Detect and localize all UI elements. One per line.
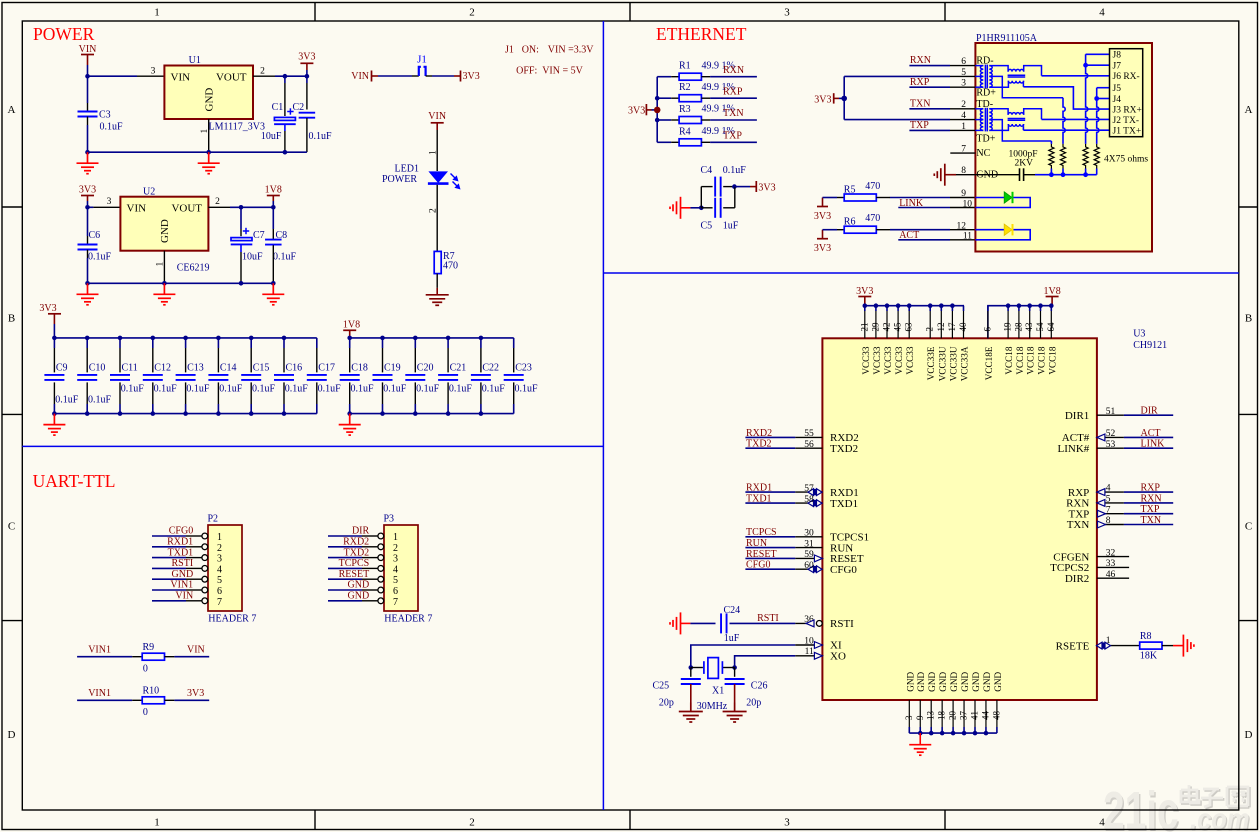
pin 40 of U3 (VCC33A) xyxy=(963,305,966,307)
svg-text:A: A xyxy=(1245,104,1253,116)
wire to P3 pin 6 (GND) xyxy=(328,589,362,591)
wire C6 to ground rail xyxy=(87,250,89,258)
wire 1V8 node down to C7 xyxy=(240,207,242,229)
svg-text:4: 4 xyxy=(217,564,222,575)
svg-text:31: 31 xyxy=(804,539,814,549)
svg-text:C15: C15 xyxy=(253,363,270,374)
svg-text:TXD1: TXD1 xyxy=(830,498,858,510)
junction xyxy=(940,731,945,736)
1V8 top rail wire xyxy=(350,337,514,339)
wire RXD2 to U3 pin 55 xyxy=(745,436,795,438)
wire VIN1 to R10 xyxy=(77,699,132,701)
3V3 bus wire to center taps xyxy=(843,76,845,119)
svg-text:3V3: 3V3 xyxy=(758,182,775,193)
wire XO to crystal xyxy=(735,656,796,668)
pin 7 of P3 xyxy=(362,600,378,602)
junction xyxy=(85,150,90,155)
resistor R10 xyxy=(132,699,142,701)
wire U3 pin 51 to net DIR xyxy=(1124,414,1173,416)
ground bottom rail wire xyxy=(54,413,316,415)
junction xyxy=(282,411,287,416)
pin 4 of U3 xyxy=(1097,491,1124,493)
IO arrow xyxy=(808,500,822,507)
junction xyxy=(151,336,156,341)
svg-text:46: 46 xyxy=(1106,570,1116,580)
wire to P2 pin 2 (RXD1) xyxy=(152,546,186,548)
wire VIN to J1 xyxy=(372,75,379,77)
wire to P2 pin 4 (RSTI) xyxy=(152,567,186,569)
svg-text:R1: R1 xyxy=(679,61,691,72)
svg-text:C17: C17 xyxy=(318,363,335,374)
wire TXD2 to U3 pin 56 xyxy=(745,447,795,449)
svg-text:1: 1 xyxy=(217,532,222,543)
svg-text:C6: C6 xyxy=(89,230,101,241)
svg-text:C10: C10 xyxy=(89,363,106,374)
pin 29 of U3 (VCC33) xyxy=(875,306,877,311)
capacitor C13 xyxy=(185,338,187,348)
svg-text:J5: J5 xyxy=(1113,84,1122,94)
junction xyxy=(1027,303,1032,308)
svg-text:11: 11 xyxy=(805,647,814,657)
ground xyxy=(670,612,681,634)
ground xyxy=(723,703,747,723)
svg-text:TXN: TXN xyxy=(723,108,744,119)
resistor 75ohm #3 xyxy=(1083,144,1088,169)
svg-text:41: 41 xyxy=(970,711,980,720)
svg-text:3V3: 3V3 xyxy=(463,71,480,82)
svg-text:J1: J1 xyxy=(417,54,427,66)
svg-text:0: 0 xyxy=(143,664,148,675)
regulator U2 body xyxy=(120,197,208,251)
svg-text:GND: GND xyxy=(993,672,1003,692)
pin 2 of U2 xyxy=(208,206,230,208)
wire RD centre tap column xyxy=(1063,98,1065,144)
svg-text:0.1uF: 0.1uF xyxy=(100,122,124,133)
junction xyxy=(282,336,287,341)
wire VIN to LED1 xyxy=(436,130,438,171)
GND bus wire under U3 xyxy=(909,732,997,734)
svg-text:29: 29 xyxy=(870,322,880,332)
svg-text:RSTI: RSTI xyxy=(830,618,854,630)
ground xyxy=(43,414,65,436)
svg-text:0.1uF: 0.1uF xyxy=(88,252,112,263)
svg-text:55: 55 xyxy=(804,429,814,439)
svg-text:VIN: VIN xyxy=(79,44,97,55)
svg-text:R2: R2 xyxy=(679,82,691,93)
wire U3 pin 7 to net TXP xyxy=(1124,513,1173,515)
svg-text:3: 3 xyxy=(784,817,790,829)
resistor R5 xyxy=(837,197,844,199)
svg-text:21: 21 xyxy=(859,323,869,332)
junction xyxy=(85,205,90,210)
wire 3V3 down to C2 xyxy=(306,76,308,83)
svg-text:40: 40 xyxy=(958,322,968,332)
junction xyxy=(699,206,704,211)
capacitor C10 xyxy=(86,338,88,348)
wire 3V3 to R5 xyxy=(823,197,838,199)
svg-text:C1: C1 xyxy=(272,102,284,113)
ground xyxy=(670,197,681,219)
regulator U1 body xyxy=(164,66,253,120)
junction xyxy=(118,411,123,416)
junction xyxy=(271,205,276,210)
wire bus to R1 xyxy=(657,76,671,78)
wire to 3V3 port xyxy=(734,186,750,188)
svg-text:3V3: 3V3 xyxy=(187,688,204,699)
IO arrow xyxy=(814,642,822,649)
svg-text:GND: GND xyxy=(982,672,992,692)
wire R5 to module pin 9 xyxy=(890,197,950,199)
LED green LINK inside module xyxy=(975,197,1004,199)
svg-text:0.1uF: 0.1uF xyxy=(219,384,243,395)
svg-text:XO: XO xyxy=(830,651,846,663)
junction xyxy=(951,731,956,736)
svg-text:11: 11 xyxy=(963,232,972,242)
svg-text:RESET: RESET xyxy=(746,549,777,560)
svg-text:2KV: 2KV xyxy=(1015,159,1034,169)
svg-text:VIN =3.3V: VIN =3.3V xyxy=(548,44,594,55)
ground xyxy=(909,745,931,756)
pin 6 of P2 xyxy=(186,589,202,591)
junction xyxy=(271,281,276,286)
wire to P2 pin 1 (CFG0) xyxy=(152,535,186,537)
pin 10 of U3 (XI) xyxy=(795,644,822,646)
junction xyxy=(249,411,254,416)
junction xyxy=(85,336,90,341)
svg-text:J1 TX+: J1 TX+ xyxy=(1113,127,1142,137)
svg-text:C8: C8 xyxy=(276,230,288,241)
svg-text:2: 2 xyxy=(469,7,475,19)
svg-text:VIN = 5V: VIN = 5V xyxy=(542,66,583,77)
capacitor C25 xyxy=(690,668,692,677)
svg-text:DIR2: DIR2 xyxy=(1065,573,1089,585)
junction xyxy=(732,665,737,670)
svg-text:GND: GND xyxy=(348,580,370,591)
svg-text:C18: C18 xyxy=(351,363,368,374)
wire pin2 of U2 to 1V8 node xyxy=(230,206,273,208)
resistor R3 xyxy=(671,119,679,121)
IO arrow xyxy=(1098,510,1106,517)
svg-text:12: 12 xyxy=(936,323,946,332)
svg-text:TD+: TD+ xyxy=(976,133,995,144)
pin 5 of P2 xyxy=(186,578,202,580)
pin 36 of U3 xyxy=(795,622,814,624)
svg-text:33: 33 xyxy=(1106,559,1116,569)
svg-text:TXD1: TXD1 xyxy=(168,547,194,558)
svg-text:RXP: RXP xyxy=(723,86,743,97)
svg-text:C21: C21 xyxy=(450,363,467,374)
wire C26 to ground xyxy=(734,684,736,703)
wire U3 pin 53 to net LINK xyxy=(1124,447,1173,449)
svg-text:LINK#: LINK# xyxy=(1058,443,1090,455)
junction xyxy=(1061,172,1066,177)
svg-text:TXN: TXN xyxy=(1141,515,1162,526)
svg-text:R4: R4 xyxy=(679,126,691,137)
connector P2 body xyxy=(208,525,242,611)
svg-text:1uF: 1uF xyxy=(723,221,739,232)
svg-text:TCPCS: TCPCS xyxy=(746,527,777,538)
junction xyxy=(347,336,352,341)
svg-text:D: D xyxy=(1245,729,1253,741)
pin 60 of U3 xyxy=(795,568,822,570)
junction xyxy=(874,303,879,308)
svg-text:45: 45 xyxy=(893,322,903,332)
svg-text:RXN: RXN xyxy=(723,65,744,76)
wire GND bus to ground xyxy=(919,733,921,745)
svg-text:TXD2: TXD2 xyxy=(344,547,370,558)
svg-text:VIN: VIN xyxy=(428,111,446,122)
IO arrow xyxy=(1097,489,1105,496)
capacitor C7 (polarized) xyxy=(231,238,253,245)
svg-text:58: 58 xyxy=(804,495,814,505)
RJ45 connector block xyxy=(1110,49,1143,137)
svg-text:1V8: 1V8 xyxy=(343,320,360,331)
connector P3 body xyxy=(384,525,418,611)
svg-text:0.1uF: 0.1uF xyxy=(285,384,309,395)
svg-text:9: 9 xyxy=(961,189,966,199)
svg-text:VIN1: VIN1 xyxy=(88,688,111,699)
junction xyxy=(1049,172,1054,177)
svg-text:12: 12 xyxy=(957,221,967,231)
svg-text:VCC33: VCC33 xyxy=(861,346,871,374)
watermark CJK glyphs xyxy=(1181,785,1249,808)
pin 20 of U3 (GND) xyxy=(952,700,954,727)
svg-text:J8: J8 xyxy=(1113,51,1122,61)
svg-text:C: C xyxy=(8,521,15,533)
wire to P2 pin 7 (VIN) xyxy=(152,600,186,602)
pin 51 of U3 xyxy=(1097,414,1124,416)
transformer RD channel xyxy=(975,65,983,67)
svg-text:6: 6 xyxy=(982,327,992,332)
svg-text:VCC33E: VCC33E xyxy=(926,346,936,380)
svg-text:RXP: RXP xyxy=(910,77,930,88)
wire U3 pin 5 to net RXN xyxy=(1124,502,1173,504)
wire U3 pin 52 to net ACT xyxy=(1124,436,1173,438)
wire C5 up to 3V3 node xyxy=(723,207,735,209)
pin 3 of P2 xyxy=(186,557,202,559)
svg-text:GND: GND xyxy=(971,672,981,692)
svg-text:VCC33: VCC33 xyxy=(905,346,915,374)
svg-text:5: 5 xyxy=(217,575,222,586)
junction xyxy=(863,303,868,308)
wire J5/J4 column xyxy=(1097,87,1110,89)
svg-text:2: 2 xyxy=(217,543,222,554)
pin 12 of U3 (VCC33U) xyxy=(940,306,942,311)
svg-text:RXD2: RXD2 xyxy=(343,537,369,548)
svg-text:0.1uF: 0.1uF xyxy=(273,252,297,263)
3V3 bus wire for termination resistors xyxy=(656,77,658,143)
pin 6 of U3 (VCC18E) xyxy=(987,306,989,311)
wire ground to pin 8 xyxy=(945,174,956,176)
svg-text:VIN: VIN xyxy=(351,71,369,82)
junction xyxy=(1094,96,1099,101)
capacitor C2 xyxy=(299,113,316,118)
svg-text:3: 3 xyxy=(961,79,966,89)
svg-text:B: B xyxy=(8,313,15,325)
wire U3 pin 8 to net TXN xyxy=(1124,524,1173,526)
svg-text:30: 30 xyxy=(804,529,814,539)
svg-text:RXP: RXP xyxy=(1141,483,1161,494)
svg-text:GND: GND xyxy=(348,591,370,602)
wire 3V3 to U2 pin 3 xyxy=(88,206,94,208)
pin 57 of U3 xyxy=(795,491,822,493)
svg-text:VIN1: VIN1 xyxy=(170,580,193,591)
resistor 75ohm #2 xyxy=(1060,144,1065,169)
wire R1 to net RXN xyxy=(710,76,757,78)
junction xyxy=(162,281,167,286)
svg-text:470: 470 xyxy=(443,261,458,272)
junction xyxy=(896,303,901,308)
wire to P2 pin 5 (GND) xyxy=(152,578,186,580)
power port 3V3 at R6 xyxy=(822,230,824,239)
svg-text:1: 1 xyxy=(393,532,398,543)
svg-text:J7: J7 xyxy=(1113,62,1122,72)
svg-text:51: 51 xyxy=(1106,407,1116,417)
svg-text:0.1uF: 0.1uF xyxy=(416,384,440,395)
svg-text:54: 54 xyxy=(1035,322,1045,332)
wire RD bottom to J3 RX+ xyxy=(1023,87,1109,109)
svg-text:4: 4 xyxy=(961,111,966,121)
svg-text:TXN: TXN xyxy=(1067,519,1090,531)
junction xyxy=(918,731,923,736)
svg-text:0.1uF: 0.1uF xyxy=(318,384,342,395)
pin 11 of U3 (XO) xyxy=(795,655,822,657)
svg-text:R8: R8 xyxy=(1140,631,1152,642)
capacitor C16 xyxy=(283,338,285,348)
svg-text:NC: NC xyxy=(976,148,990,159)
svg-text:RXN: RXN xyxy=(910,55,931,66)
internal GND wire with 1000pF cap xyxy=(975,174,1019,176)
IO arrow xyxy=(1098,521,1106,528)
svg-text:0.1uF: 0.1uF xyxy=(154,384,178,395)
svg-text:J1: J1 xyxy=(505,44,514,55)
svg-text:3V3: 3V3 xyxy=(39,303,56,314)
junction xyxy=(183,411,188,416)
ground rail wire under U2 xyxy=(88,282,274,284)
junction xyxy=(85,281,90,286)
pin 46 of U3 xyxy=(1097,577,1129,579)
svg-text:VCC33U: VCC33U xyxy=(948,346,958,381)
svg-text:59: 59 xyxy=(804,550,814,560)
pin 42 of U3 (VCC33) xyxy=(886,306,888,311)
svg-text:3V3: 3V3 xyxy=(814,94,831,105)
ground xyxy=(426,295,449,306)
svg-text:4: 4 xyxy=(393,564,398,575)
wire VIN to U1 pin 3 xyxy=(88,75,138,77)
crystal X1 xyxy=(691,667,703,669)
svg-text:8: 8 xyxy=(1106,516,1111,526)
svg-text:UART-TTL: UART-TTL xyxy=(33,471,116,491)
svg-text:0.1uF: 0.1uF xyxy=(383,384,407,395)
svg-text:21ic: 21ic xyxy=(1103,780,1179,832)
svg-text:TXD1: TXD1 xyxy=(746,494,772,505)
pin 2 of LED1 xyxy=(436,185,438,252)
pin 44 of U3 (GND) xyxy=(985,700,987,727)
wire to P3 pin 1 (DIR) xyxy=(328,535,362,537)
wire TXN to module pin 2 xyxy=(909,108,950,110)
wire CFG0 to U3 pin 60 xyxy=(745,568,795,570)
wire center tap pin 4 xyxy=(844,119,950,121)
capacitor C4 xyxy=(700,187,702,208)
junction xyxy=(305,74,310,79)
svg-text:0.1uF: 0.1uF xyxy=(482,384,506,395)
junction xyxy=(85,411,90,416)
svg-text:1: 1 xyxy=(200,129,210,134)
svg-text:C22: C22 xyxy=(482,363,499,374)
pin 37 of U3 (GND) xyxy=(963,700,965,727)
wire bus to R4 xyxy=(657,141,671,143)
svg-text:VIN: VIN xyxy=(127,203,147,215)
wire C24 to U3 pin 36 (RSTI) xyxy=(730,622,796,624)
svg-text:4X75 ohms: 4X75 ohms xyxy=(1104,155,1148,165)
svg-text:VIN: VIN xyxy=(187,645,205,656)
wire C2 to ground rail xyxy=(306,118,308,152)
junction xyxy=(380,411,385,416)
svg-text:5: 5 xyxy=(961,68,966,78)
svg-text:20p: 20p xyxy=(746,697,761,708)
pin 3 of U2 xyxy=(93,206,120,208)
svg-text:9: 9 xyxy=(915,715,925,720)
junction xyxy=(841,96,847,102)
svg-text:7: 7 xyxy=(217,597,222,608)
svg-text:0.1uF: 0.1uF xyxy=(723,165,747,176)
svg-text:3: 3 xyxy=(217,554,222,565)
svg-text:C24: C24 xyxy=(724,605,741,616)
svg-text:3: 3 xyxy=(904,715,914,720)
pin 53 of U3 xyxy=(1097,447,1124,449)
svg-text:POWER: POWER xyxy=(33,24,95,44)
capacitor C14 xyxy=(217,338,219,348)
svg-text:GND: GND xyxy=(905,672,915,692)
svg-text:DIR1: DIR1 xyxy=(1065,410,1089,422)
junction xyxy=(380,336,385,341)
svg-text:3V3: 3V3 xyxy=(298,52,315,63)
svg-text:POWER: POWER xyxy=(382,174,417,185)
svg-text:3V3: 3V3 xyxy=(79,185,96,196)
3V3 top rail wire xyxy=(54,337,316,339)
junction xyxy=(689,665,694,670)
svg-text:CFG0: CFG0 xyxy=(746,560,770,571)
pin 5 of U3 xyxy=(1097,502,1124,504)
resistor 75ohm #4 xyxy=(1094,144,1099,169)
svg-text:4: 4 xyxy=(1099,817,1105,829)
svg-text:2: 2 xyxy=(260,67,265,77)
svg-text:VCC18E: VCC18E xyxy=(984,346,994,380)
pin 43 of U3 (VCC18) xyxy=(1029,306,1031,311)
svg-text:63: 63 xyxy=(904,322,914,332)
IO arrow xyxy=(1097,500,1105,507)
svg-text:64: 64 xyxy=(1046,322,1056,332)
3V3 rail wire at U3 xyxy=(865,305,964,307)
svg-text:VCC18: VCC18 xyxy=(1037,346,1047,374)
svg-text:43: 43 xyxy=(1024,322,1034,332)
junction xyxy=(479,411,484,416)
resistor R2 xyxy=(671,97,679,99)
wire VIN down to C3 xyxy=(87,76,89,103)
svg-text:2: 2 xyxy=(393,543,398,554)
svg-text:1: 1 xyxy=(961,122,966,132)
svg-text:2: 2 xyxy=(961,100,966,110)
wire C3 to ground rail xyxy=(87,117,89,126)
wire RXN to module pin 6 xyxy=(909,65,950,67)
svg-text:7: 7 xyxy=(961,145,966,155)
wire R9 to VIN xyxy=(174,656,209,658)
pin 2 of U1 xyxy=(253,75,275,77)
pin 52 of U3 xyxy=(1097,436,1124,438)
svg-text:RXD1: RXD1 xyxy=(746,483,772,494)
ground rail wire under U1 xyxy=(88,151,307,153)
LED yellow ACT inside module xyxy=(975,229,1004,231)
